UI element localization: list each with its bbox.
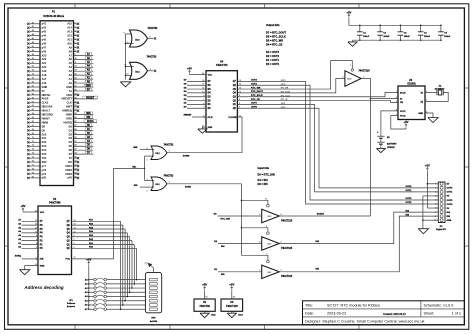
svg-text:D7 = RTC_DOUT: D7 = RTC_DOUT [266, 31, 286, 35]
svg-text:U2.5: U2.5 [211, 315, 216, 317]
svg-text:8: 8 [435, 212, 436, 214]
svg-text:65: 65 [32, 117, 34, 119]
svg-text:/CLR: /CLR [208, 117, 213, 119]
svg-text:A22: A22 [42, 57, 47, 61]
svg-text:A21: A21 [42, 61, 47, 65]
svg-text:A18: A18 [42, 73, 47, 77]
svg-text:11: 11 [35, 231, 37, 233]
svg-text:HRD: HRD [66, 116, 72, 120]
svg-text:/OE: /OE [40, 259, 44, 261]
svg-text:HHALT: HHALT [42, 109, 51, 113]
svg-text:100nF: 100nF [404, 36, 411, 38]
svg-text:U3.1: U3.1 [267, 272, 271, 274]
svg-text:D2 = OUT2: D2 = OUT2 [266, 54, 280, 58]
svg-text:jumpers: jumpers [66, 305, 76, 308]
svg-text:74HCT125: 74HCT125 [281, 219, 293, 222]
svg-text:Address decoding: Address decoding [23, 285, 64, 290]
svg-text:17: 17 [202, 84, 204, 86]
svg-text:3: 3 [435, 192, 436, 194]
svg-text:D13: D13 [42, 144, 47, 148]
svg-text:5V: 5V [87, 89, 90, 91]
svg-text:CR2032: CR2032 [387, 147, 395, 149]
svg-text:HBUSAK: HBUSAK [42, 105, 53, 109]
svg-text:1: 1 [350, 65, 351, 67]
svg-text:p77: p77 [42, 164, 47, 168]
svg-text:D6 = RTC_SCLK: D6 = RTC_SCLK [266, 35, 286, 39]
svg-text:1: 1 [266, 253, 267, 255]
svg-text:A4: A4 [69, 65, 73, 69]
svg-text:Sheet:: Sheet: [424, 311, 435, 315]
svg-text:/WR: /WR [86, 113, 91, 115]
svg-text:20: 20 [202, 73, 204, 75]
svg-text:D1 = OUT1: D1 = OUT1 [266, 58, 280, 62]
svg-text:4: 4 [266, 225, 267, 228]
svg-text:D4 = IN4: D4 = IN4 [258, 178, 269, 182]
svg-text:OUT3: OUT3 [447, 204, 454, 206]
svg-text:/RESET: /RESET [86, 97, 95, 99]
svg-text:D3: D3 [69, 136, 73, 140]
svg-text:A10: A10 [67, 41, 72, 45]
svg-text:11: 11 [150, 69, 152, 71]
svg-text:58: 58 [32, 89, 34, 91]
svg-text:62: 62 [32, 105, 34, 107]
svg-text:p44: p44 [42, 34, 47, 38]
svg-text:61: 61 [32, 101, 34, 103]
svg-text:2: 2 [342, 77, 343, 79]
svg-text:HRFSH: HRFSH [42, 93, 51, 97]
svg-text:10: 10 [265, 198, 267, 200]
svg-text:6: 6 [281, 241, 282, 243]
svg-text:6: 6 [169, 151, 170, 153]
svg-text:74HCT125: 74HCT125 [281, 247, 293, 250]
svg-text:14: 14 [202, 87, 204, 90]
svg-text:A9: A9 [69, 45, 73, 49]
svg-text:100nF: 100nF [363, 36, 370, 38]
svg-text:p80: p80 [42, 176, 47, 180]
svg-text:D10: D10 [42, 132, 47, 136]
svg-text:69: 69 [32, 133, 34, 135]
svg-text:A5: A5 [69, 61, 73, 65]
svg-text:74HCT32: 74HCT32 [199, 305, 210, 308]
svg-text:A2: A2 [69, 73, 73, 77]
svg-text:OUT2: OUT2 [447, 200, 454, 202]
svg-text:57: 57 [32, 85, 34, 87]
svg-text:8x100k: 8x100k [150, 321, 158, 323]
svg-text:78: 78 [32, 168, 34, 170]
svg-text:A0: A0 [69, 81, 73, 85]
svg-text:75: 75 [32, 157, 34, 159]
svg-text:HIORQ: HIORQ [64, 120, 72, 124]
svg-text:55: 55 [32, 78, 34, 80]
svg-text:D15: D15 [42, 152, 47, 156]
svg-text:VCC1: VCC1 [400, 111, 406, 113]
svg-text:4: 4 [203, 102, 204, 105]
svg-text:D0 = OUT0: D0 = OUT0 [266, 62, 280, 66]
svg-text:66: 66 [32, 121, 34, 123]
svg-text:D6: D6 [69, 148, 73, 152]
svg-text:RCBUS-40 MALE: RCBUS-40 MALE [43, 14, 64, 18]
svg-text:p43: p43 [42, 30, 47, 34]
svg-text:42: 42 [32, 25, 34, 28]
svg-text:GND: GND [418, 113, 423, 115]
svg-text:D2: D2 [69, 132, 73, 136]
svg-text:Designer: Stephen C Cousins, S: Designer: Stephen C Cousins, Small Compu… [305, 320, 425, 324]
svg-text:HWR: HWR [66, 113, 72, 117]
svg-text:HMREQ: HMREQ [62, 109, 71, 113]
svg-text:68: 68 [32, 129, 34, 131]
svg-text:A23: A23 [42, 53, 47, 57]
svg-text:79: 79 [32, 172, 34, 174]
svg-text:Output bits: Output bits [266, 23, 280, 27]
svg-text:U3.3: U3.3 [267, 216, 271, 218]
svg-text:IO: IO [400, 98, 403, 100]
svg-text:RX: RX [68, 160, 72, 164]
svg-text:49: 49 [32, 53, 34, 56]
svg-text:74HCT32: 74HCT32 [164, 144, 175, 147]
svg-text:63: 63 [32, 109, 34, 111]
svg-text:72: 72 [32, 145, 34, 147]
svg-text:A3: A3 [69, 69, 73, 73]
svg-text:A11: A11 [67, 37, 72, 41]
svg-text:/RESET: /RESET [184, 114, 193, 116]
svg-text:1: 1 [147, 179, 148, 181]
svg-text:D1: D1 [69, 128, 73, 132]
svg-text:p79: p79 [42, 172, 47, 176]
svg-text:D14: D14 [42, 148, 47, 152]
svg-text:13: 13 [35, 227, 37, 229]
svg-text:50: 50 [32, 58, 34, 60]
svg-text:100nF: 100nF [424, 36, 431, 38]
svg-text:53: 53 [32, 70, 34, 72]
svg-text:5: 5 [147, 159, 148, 161]
svg-text:p78: p78 [42, 168, 47, 172]
svg-text:GND: GND [447, 220, 452, 222]
svg-text:P=Q: P=Q [66, 259, 71, 261]
svg-text:BATTERY: BATTERY [387, 143, 397, 146]
svg-text:HBUSRQ: HBUSRQ [42, 113, 53, 117]
svg-text:PAGE: PAGE [42, 97, 49, 101]
svg-text:D3 = OUT3: D3 = OUT3 [266, 50, 280, 54]
svg-text:70: 70 [32, 137, 34, 139]
svg-text:A17: A17 [42, 77, 47, 81]
svg-text:8: 8 [281, 214, 282, 216]
svg-text:A20: A20 [42, 65, 47, 69]
svg-text:OUT0: OUT0 [447, 188, 454, 190]
svg-text:D11: D11 [42, 136, 47, 140]
svg-text:15: 15 [35, 224, 37, 226]
svg-text:D0: D0 [69, 124, 73, 128]
svg-text:5: 5 [396, 101, 397, 103]
svg-text:D8: D8 [42, 124, 46, 128]
svg-text:52: 52 [32, 66, 34, 68]
svg-text:6: 6 [36, 239, 37, 241]
svg-text:HM1: HM1 [67, 93, 73, 97]
svg-text:D5 = RTC_WR: D5 = RTC_WR [266, 38, 283, 42]
svg-text:9: 9 [259, 214, 260, 216]
svg-text:3: 3 [363, 76, 364, 78]
svg-text:32.768kHz: 32.768kHz [435, 89, 445, 91]
svg-text:74HCT125: 74HCT125 [359, 69, 371, 72]
svg-text:D0 = RTC_DIN: D0 = RTC_DIN [258, 172, 275, 176]
svg-text:TX2: TX2 [42, 156, 47, 160]
svg-text:2: 2 [147, 190, 148, 192]
svg-text:Created: 2023-09-13: Created: 2023-09-13 [383, 313, 406, 316]
svg-text:D4: D4 [69, 140, 73, 144]
svg-text:HWAIT: HWAIT [42, 116, 51, 120]
svg-text:CLK: CLK [67, 101, 72, 105]
svg-text:p41: p41 [42, 22, 47, 26]
svg-text:VCC: VCC [40, 212, 45, 214]
svg-text:Input bits: Input bits [258, 166, 270, 170]
svg-text:59: 59 [32, 93, 34, 95]
svg-text:VCC2: VCC2 [400, 115, 406, 117]
svg-text:p48: p48 [42, 49, 47, 53]
svg-text:18: 18 [202, 80, 204, 82]
svg-text:10: 10 [127, 42, 129, 44]
svg-text:/IORQ: /IORQ [87, 121, 94, 123]
svg-text:5V: 5V [42, 89, 45, 93]
svg-text:p46: p46 [42, 41, 47, 45]
svg-text:47: 47 [32, 45, 34, 48]
svg-text:/WR: /WR [133, 147, 138, 149]
svg-text:60: 60 [32, 97, 34, 99]
svg-text:74HCT125: 74HCT125 [226, 305, 238, 308]
svg-text:U3.2: U3.2 [267, 244, 271, 246]
svg-text:HNMI: HNMI [42, 120, 49, 124]
svg-text:/RD: /RD [86, 117, 90, 119]
svg-text:73: 73 [32, 149, 34, 151]
svg-text:Title:: Title: [305, 303, 313, 307]
svg-text:20: 20 [35, 210, 37, 212]
svg-text:2: 2 [259, 270, 260, 272]
svg-text:7: 7 [396, 91, 397, 93]
svg-text:6: 6 [435, 204, 436, 206]
svg-text:46: 46 [32, 41, 34, 44]
svg-text:A6: A6 [69, 57, 73, 61]
svg-text:HINT: HINT [66, 105, 72, 109]
svg-text:p40: p40 [68, 176, 73, 180]
svg-text:77: 77 [32, 164, 34, 166]
svg-text:67: 67 [32, 125, 34, 127]
svg-text:1: 1 [203, 115, 204, 117]
svg-text:4: 4 [36, 242, 37, 245]
svg-text:SDATA: SDATA [317, 213, 325, 216]
svg-text:/IOWR: /IOWR [183, 156, 190, 158]
svg-text:D5: D5 [69, 144, 73, 148]
svg-text:76: 76 [32, 161, 34, 163]
svg-text:D7: D7 [69, 152, 73, 156]
svg-text:D6 = IN5: D6 = IN5 [258, 182, 269, 186]
svg-text:7: 7 [203, 99, 204, 101]
svg-text:74HCT32: 74HCT32 [164, 175, 175, 178]
svg-text:OUT1: OUT1 [447, 192, 454, 194]
svg-text:GND: GND [42, 85, 48, 89]
svg-text:71: 71 [32, 141, 34, 143]
svg-text:D9: D9 [42, 128, 46, 132]
svg-text:A16: A16 [42, 81, 47, 85]
svg-text:A7: A7 [69, 53, 73, 57]
svg-text:13: 13 [202, 91, 204, 93]
svg-text:A14: A14 [67, 26, 72, 30]
svg-text:80: 80 [32, 176, 34, 178]
svg-text:9: 9 [435, 216, 436, 218]
svg-text:74HCT688: 74HCT688 [49, 202, 61, 205]
svg-text:SC727: RTC module for RCBus: SC727: RTC module for RCBus [327, 303, 380, 307]
svg-text:CLK2: CLK2 [42, 101, 49, 105]
svg-text:Date:: Date: [305, 311, 314, 315]
svg-text:TX: TX [69, 156, 73, 160]
svg-text:3: 3 [169, 182, 170, 184]
svg-text:9: 9 [124, 32, 125, 34]
svg-text:74HCT32: 74HCT32 [148, 27, 159, 30]
svg-text:17: 17 [35, 220, 37, 222]
svg-text:GND: GND [66, 85, 72, 89]
svg-text:p47: p47 [42, 45, 47, 49]
svg-text:2: 2 [435, 188, 436, 190]
svg-text:A19: A19 [42, 69, 47, 73]
svg-text:U3.5: U3.5 [238, 315, 243, 317]
svg-text:A8: A8 [69, 49, 73, 53]
svg-text:100nF: 100nF [444, 36, 451, 38]
svg-text:6: 6 [396, 97, 397, 99]
svg-text:48: 48 [32, 49, 34, 52]
svg-text:USR2: USR2 [65, 168, 72, 172]
svg-text:p42: p42 [42, 26, 47, 30]
svg-text:/IORD: /IORD [185, 186, 191, 188]
svg-text:12: 12 [124, 65, 126, 67]
svg-text:1: 1 [36, 257, 37, 259]
svg-text:51: 51 [32, 62, 34, 64]
svg-text:2023-09-22: 2023-09-22 [327, 311, 346, 315]
svg-text:GND: GND [208, 127, 213, 129]
svg-text:A12: A12 [67, 34, 72, 38]
svg-text:/IORQ: /IORQ [15, 256, 21, 258]
svg-text:/RD: /RD [134, 185, 138, 187]
svg-text:74HCT32: 74HCT32 [147, 55, 158, 58]
svg-text:Address: Address [67, 302, 76, 305]
svg-text:5: 5 [259, 241, 260, 243]
svg-text:OUT3: OUT3 [406, 202, 413, 204]
svg-text:RX2: RX2 [42, 160, 48, 164]
svg-text:D12: D12 [42, 140, 47, 144]
svg-text:2: 2 [36, 247, 37, 249]
svg-text:Schematic: v1.0.0: Schematic: v1.0.0 [424, 303, 454, 307]
svg-text:OUT2: OUT2 [406, 198, 413, 200]
svg-text:D4 = RTC_CE: D4 = RTC_CE [266, 42, 283, 46]
svg-text:1 of 1: 1 of 1 [452, 311, 461, 315]
svg-text:8: 8 [203, 95, 204, 97]
svg-text:56: 56 [32, 82, 34, 84]
svg-text:A13: A13 [67, 30, 72, 34]
svg-text:45: 45 [32, 37, 34, 40]
svg-text:43: 43 [32, 29, 34, 32]
svg-text:GND: GND [86, 85, 91, 87]
svg-text:100nF: 100nF [383, 36, 390, 38]
svg-text:74HCT125: 74HCT125 [281, 275, 293, 278]
svg-text:USR3: USR3 [65, 172, 72, 176]
svg-text:HRESET: HRESET [62, 97, 73, 101]
svg-text:USR1: USR1 [65, 164, 72, 168]
svg-text:13: 13 [127, 73, 129, 75]
svg-text:A15: A15 [67, 22, 72, 26]
svg-text:41: 41 [32, 21, 34, 24]
svg-text:3: 3 [203, 107, 204, 109]
svg-text:p45: p45 [42, 37, 47, 41]
svg-text:8: 8 [150, 37, 151, 39]
svg-text:5: 5 [435, 200, 436, 202]
svg-text:VCC: VCC [208, 74, 213, 76]
svg-text:3: 3 [281, 270, 282, 272]
svg-text:8: 8 [36, 235, 37, 237]
svg-text:GND: GND [40, 265, 45, 267]
svg-text:SCLK: SCLK [400, 92, 406, 94]
svg-text:RTC_DIN: RTC_DIN [221, 218, 231, 220]
svg-text:OUT1: OUT1 [406, 190, 413, 192]
svg-text:DS1302: DS1302 [407, 84, 416, 86]
svg-text:74HCT273: 74HCT273 [216, 64, 228, 67]
svg-text:OUT0: OUT0 [406, 186, 413, 188]
svg-text:Digital I/O: Digital I/O [436, 228, 446, 231]
svg-text:A1: A1 [69, 77, 73, 81]
